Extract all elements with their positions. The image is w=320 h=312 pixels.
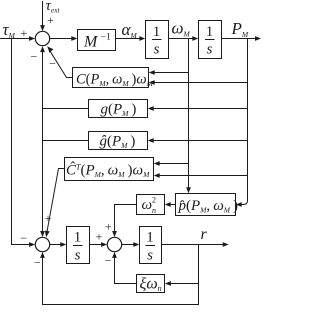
svg-text:s: s xyxy=(154,42,160,58)
arrowhead omegaM into C xyxy=(149,70,155,75)
arrowhead into I2 xyxy=(192,36,198,41)
wire C output diagonal to S1 xyxy=(50,50,73,77)
wire S3 to integrator I4 xyxy=(122,244,135,246)
block integrator I1 1/s xyxy=(146,21,169,59)
wire I3 to S3 xyxy=(90,244,103,246)
arrowhead omegaM into ChatT xyxy=(154,161,160,166)
arrowhead into ghat xyxy=(148,138,154,143)
arrowhead tauM into S1 xyxy=(29,36,35,41)
svg-text:−: − xyxy=(20,231,27,245)
svg-text:−: − xyxy=(105,254,112,268)
wire tauM input xyxy=(0,38,31,40)
wire g output to shared vertical xyxy=(43,108,89,110)
svg-text:C(PM, ωM )ωM: C(PM, ωM )ωM xyxy=(76,72,154,89)
svg-text:s: s xyxy=(147,248,153,264)
wire xi omega_n output to S3 bottom xyxy=(115,256,137,283)
arrowhead ChatT diagonal into S2 top-right xyxy=(45,231,50,238)
svg-text:1: 1 xyxy=(146,230,154,246)
svg-text:n: n xyxy=(152,206,156,215)
arrowhead I3 output into S3 xyxy=(101,242,107,247)
wire PM dropline to phat right input xyxy=(240,39,248,205)
arrowhead xi omega_n output into S3 bottom xyxy=(112,252,117,258)
svg-text:2: 2 xyxy=(152,196,156,205)
wire PM to g block input xyxy=(152,108,248,110)
svg-text:1: 1 xyxy=(153,24,161,40)
svg-text:−1: −1 xyxy=(101,33,111,43)
wire left feedback vertical from tauM line to sum S2 xyxy=(12,39,31,245)
wire I2 to PM output arrow xyxy=(222,38,256,40)
svg-text:+: + xyxy=(105,219,112,233)
arrowhead r output xyxy=(223,242,229,247)
wire ChatT output diagonal to S2 xyxy=(47,169,65,232)
svg-text:s: s xyxy=(207,42,213,58)
svg-text:ω: ω xyxy=(142,197,153,213)
wire I1 to integrator I2 xyxy=(169,38,195,40)
svg-text:+: + xyxy=(45,211,52,225)
svg-text:ĝ(PM ): ĝ(PM ) xyxy=(100,134,136,151)
summing junction S1 xyxy=(35,31,49,45)
svg-text:+: + xyxy=(96,230,103,244)
svg-text:1: 1 xyxy=(74,230,82,246)
svg-text:−: − xyxy=(49,56,56,70)
block ghat(PM) xyxy=(89,132,148,150)
arrowhead omega_n^2 vertical into S3 top xyxy=(112,231,117,237)
arrowhead omegaM dropline into phat top xyxy=(186,187,191,193)
block phat(PM,wM) xyxy=(176,194,236,216)
arrowhead into xi omega_n xyxy=(165,281,171,286)
svg-text:s: s xyxy=(75,248,81,264)
arrowhead into I1 xyxy=(139,36,145,41)
arrowhead into I4 xyxy=(133,242,139,247)
summing junction S3 xyxy=(107,237,121,251)
arrowhead PM output xyxy=(255,36,261,41)
wire M^-1 to integrator I1 xyxy=(116,38,142,40)
svg-text:M: M xyxy=(83,34,99,51)
svg-text:−: − xyxy=(31,50,38,64)
arrowhead shared vertical into S2 top xyxy=(40,231,45,237)
wire tau_ext vertical into S1 top xyxy=(42,1,44,27)
svg-text:g(PM ): g(PM ) xyxy=(101,102,137,119)
wire PM to ghat block input xyxy=(152,140,248,142)
summing junction S2 xyxy=(35,237,49,251)
arrowhead C diagonal into S1 bottom-right xyxy=(47,46,53,53)
wire omegaM to C block input xyxy=(153,72,189,74)
wire I4 to r output arrow xyxy=(162,244,224,246)
wire PM to C block input xyxy=(153,82,248,84)
block g(PM) xyxy=(89,100,148,118)
svg-text:1: 1 xyxy=(206,24,214,40)
wire branch to xi omega_n xyxy=(169,283,199,285)
wire omega_n^2 output to S3 top xyxy=(115,205,137,233)
svg-text:−: − xyxy=(34,256,41,270)
wire phat output to omega_n^2 xyxy=(169,204,176,206)
arrowhead phat output into omega_n^2 xyxy=(165,202,171,207)
block C(PM,wM)wM xyxy=(73,68,149,88)
wire omegaM to ChatT block input xyxy=(158,163,189,165)
svg-text:+: + xyxy=(21,26,28,40)
wire omegaM dropline to phat top xyxy=(188,39,190,189)
block integrator I3 1/s xyxy=(67,227,90,264)
arrowhead into M^-1 xyxy=(71,36,77,41)
arrowhead PM into ChatT xyxy=(154,173,160,178)
block integrator I2 1/s xyxy=(199,21,222,59)
arrowhead tau_ext into S1 top xyxy=(40,25,45,31)
arrowhead PM into C xyxy=(149,80,155,85)
arrowhead into I3 xyxy=(60,242,66,247)
arrowhead bottom feedback into S2 bottom xyxy=(40,252,45,258)
svg-text:r: r xyxy=(201,226,208,243)
wire PM to ChatT block input xyxy=(158,175,248,177)
arrowhead PM line into phat right xyxy=(236,202,242,207)
block M^-1 xyxy=(78,30,116,51)
wire ghat output to shared vertical xyxy=(43,140,89,142)
arrowhead into g xyxy=(148,106,154,111)
wire r dropline feedback to S2 bottom xyxy=(43,245,199,305)
svg-text:+: + xyxy=(47,13,54,27)
wire S1 to M^-1 xyxy=(50,38,73,40)
block ChatT(PM,wM)wM xyxy=(65,158,154,181)
wire S2 to integrator I3 xyxy=(50,244,62,246)
block omega_n^2 xyxy=(137,195,165,215)
block xi omega_n xyxy=(137,275,165,293)
wire shared vertical between S1 and S2 xyxy=(42,51,44,233)
arrowhead g vertical into S1 bottom xyxy=(40,46,45,52)
arrowhead left feedback into S2 xyxy=(29,242,35,247)
block integrator I4 1/s xyxy=(140,227,162,264)
